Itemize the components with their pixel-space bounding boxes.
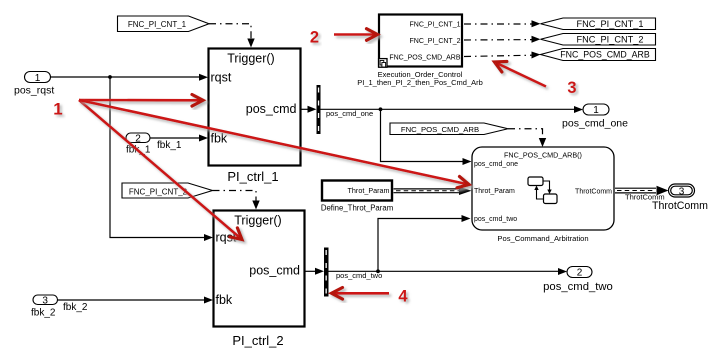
badge function-call icon — [379, 59, 387, 68]
svg-text:FNC_PI_CNT_2: FNC_PI_CNT_2 — [410, 38, 461, 45]
annotation number 4 — [398, 287, 408, 305]
annotation arrow 2 — [334, 29, 378, 41]
svg-text:pos_cmd: pos_cmd — [249, 264, 300, 278]
svg-text:pos_cmd: pos_cmd — [246, 102, 297, 116]
chart icon states — [528, 177, 557, 204]
svg-text:FNC_POS_CMD_ARB: FNC_POS_CMD_ARB — [389, 55, 461, 62]
svg-text:ThrotComm: ThrotComm — [575, 189, 612, 196]
subsystem Execution_Order_Control — [379, 15, 462, 67]
wire pos_rqst branch to rqst2 — [110, 77, 213, 241]
from tag FNC_POS_CMD_ARB — [390, 123, 508, 135]
wire pos_cmd_one to outport — [321, 106, 584, 118]
svg-text:1: 1 — [35, 73, 41, 84]
svg-text:FNC_PI_CNT_1: FNC_PI_CNT_1 — [410, 22, 461, 29]
svg-text:fbk_1: fbk_1 — [157, 140, 182, 151]
wire pos_cmd_two branch to chart — [378, 215, 471, 271]
subsystem PI_ctrl_1 — [209, 49, 301, 166]
goto tag FNC_PI_CNT_2 — [541, 34, 656, 46]
wire trigger2 dashdot — [213, 191, 260, 210]
svg-text:pos_cmd_two: pos_cmd_two — [336, 271, 382, 280]
wire exec out FNC_POS_CMD_ARB — [464, 52, 541, 59]
wire fbk_2 — [58, 297, 214, 314]
annotation arrow 1a — [79, 95, 203, 107]
svg-text:ThrotComm: ThrotComm — [625, 193, 665, 202]
svg-text:Trigger(): Trigger() — [234, 214, 281, 228]
outport 2 pos_cmd_two — [543, 267, 613, 294]
svg-text:Trigger(): Trigger() — [227, 52, 274, 66]
chart Pos_Command_Arbitration — [472, 147, 614, 230]
annotation arrow 1c — [79, 100, 469, 188]
annotation number 2 — [310, 28, 319, 46]
annotation arrow 3 — [495, 62, 547, 87]
svg-text:pos_cmd_two: pos_cmd_two — [543, 281, 613, 293]
annotation number 3 — [567, 79, 576, 97]
inport 2 fbk_1 — [126, 133, 151, 156]
junction pos_cmd_two — [376, 269, 380, 273]
wire pos_cmd1 to bar — [302, 106, 317, 113]
svg-text:pos_rqst: pos_rqst — [14, 85, 54, 97]
svg-text:pos_cmd_one: pos_cmd_one — [474, 161, 518, 168]
svg-text:ThrotComm: ThrotComm — [652, 200, 708, 212]
svg-text:FNC_POS_CMD_ARB: FNC_POS_CMD_ARB — [560, 50, 650, 60]
svg-text:PI_ctrl_2: PI_ctrl_2 — [232, 333, 283, 348]
inport 1 pos_rqst — [14, 72, 54, 97]
outport 1 pos_cmd_one — [562, 104, 628, 130]
svg-text:FNC_PI_CNT_2: FNC_PI_CNT_2 — [577, 35, 644, 45]
svg-text:Throt_Param: Throt_Param — [474, 188, 515, 195]
svg-text:3: 3 — [42, 295, 48, 306]
from tag FNC_PI_CNT_1 — [118, 16, 210, 32]
svg-text:1: 1 — [53, 100, 62, 119]
wire exec out FNC_PI_CNT_2 — [464, 36, 541, 43]
svg-text:FNC_POS_CMD_ARB: FNC_POS_CMD_ARB — [401, 125, 479, 134]
goto tag FNC_PI_CNT_1 — [541, 18, 656, 30]
svg-text:pos_cmd_two: pos_cmd_two — [474, 216, 517, 223]
label Execution_Order_Control — [357, 70, 483, 87]
svg-text:pos_cmd_one: pos_cmd_one — [562, 118, 628, 130]
wire pos_cmd_two to outport — [329, 268, 568, 280]
svg-text:fbk_2: fbk_2 — [63, 302, 88, 313]
svg-text:FNC_PI_CNT_1: FNC_PI_CNT_1 — [128, 20, 187, 29]
annotation arrow 4 — [332, 288, 390, 300]
wire pos_cmd_one branch to chart — [381, 109, 472, 165]
svg-text:pos_cmd_one: pos_cmd_one — [326, 109, 373, 118]
wire Throt_Param bus — [394, 187, 472, 195]
svg-text:FNC_POS_CMD_ARB(): FNC_POS_CMD_ARB() — [504, 151, 582, 160]
svg-text:1: 1 — [593, 105, 599, 116]
svg-text:4: 4 — [398, 287, 408, 305]
svg-text:PI_1_then_PI_2_then_Pos_Cmd_Ar: PI_1_then_PI_2_then_Pos_Cmd_Arb — [357, 78, 483, 87]
mux bar two — [324, 248, 329, 297]
inport 3 fbk_2 — [31, 295, 58, 319]
goto tag FNC_POS_CMD_ARB — [541, 49, 656, 61]
svg-text:FNC_PI_CNT_1: FNC_PI_CNT_1 — [577, 19, 644, 29]
svg-text:fbk: fbk — [216, 293, 233, 307]
label PI_ctrl_1 — [227, 169, 278, 184]
svg-text:rqst: rqst — [211, 71, 232, 85]
wire arb tag dashdot to chart — [508, 129, 546, 147]
wire fbk_1 — [150, 135, 208, 152]
svg-text:FNC_PI_CNT_2: FNC_PI_CNT_2 — [129, 188, 188, 197]
label PI_ctrl_2 — [232, 333, 283, 348]
label Pos_Command_Arbitration — [497, 234, 588, 243]
svg-text:Define_Throt_Param: Define_Throt_Param — [321, 204, 393, 213]
svg-text:2: 2 — [310, 28, 319, 46]
subsystem PI_ctrl_2 — [214, 211, 305, 327]
svg-text:3: 3 — [679, 187, 685, 198]
outport 3 ThrotComm — [652, 184, 708, 212]
wire pos_cmd2 to bar — [305, 268, 325, 275]
wire exec out FNC_PI_CNT_1 — [464, 20, 541, 27]
svg-text:fbk: fbk — [211, 132, 228, 146]
wire pos_rqst to rqst1 — [51, 74, 209, 81]
block Define_Throt_Param — [322, 181, 392, 201]
svg-text:Pos_Command_Arbitration: Pos_Command_Arbitration — [497, 234, 588, 243]
mux bar one — [317, 85, 321, 134]
svg-text:2: 2 — [135, 133, 141, 144]
svg-text:2: 2 — [577, 268, 583, 279]
annotation number 1 — [53, 100, 62, 119]
annotation arrow 1b — [79, 100, 242, 240]
wire trigger1 dashdot — [209, 24, 255, 48]
from tag FNC_PI_CNT_2 — [122, 183, 213, 198]
svg-text:3: 3 — [567, 79, 576, 97]
svg-text:Throt_Param: Throt_Param — [348, 186, 390, 195]
wire ThrotComm bus — [615, 186, 669, 202]
junction pos_rqst — [108, 75, 112, 79]
svg-text:PI_ctrl_1: PI_ctrl_1 — [227, 169, 278, 184]
junction pos_cmd_one — [379, 107, 383, 111]
label Define_Throt_Param — [321, 204, 393, 213]
svg-text:fbk_2: fbk_2 — [31, 308, 56, 319]
